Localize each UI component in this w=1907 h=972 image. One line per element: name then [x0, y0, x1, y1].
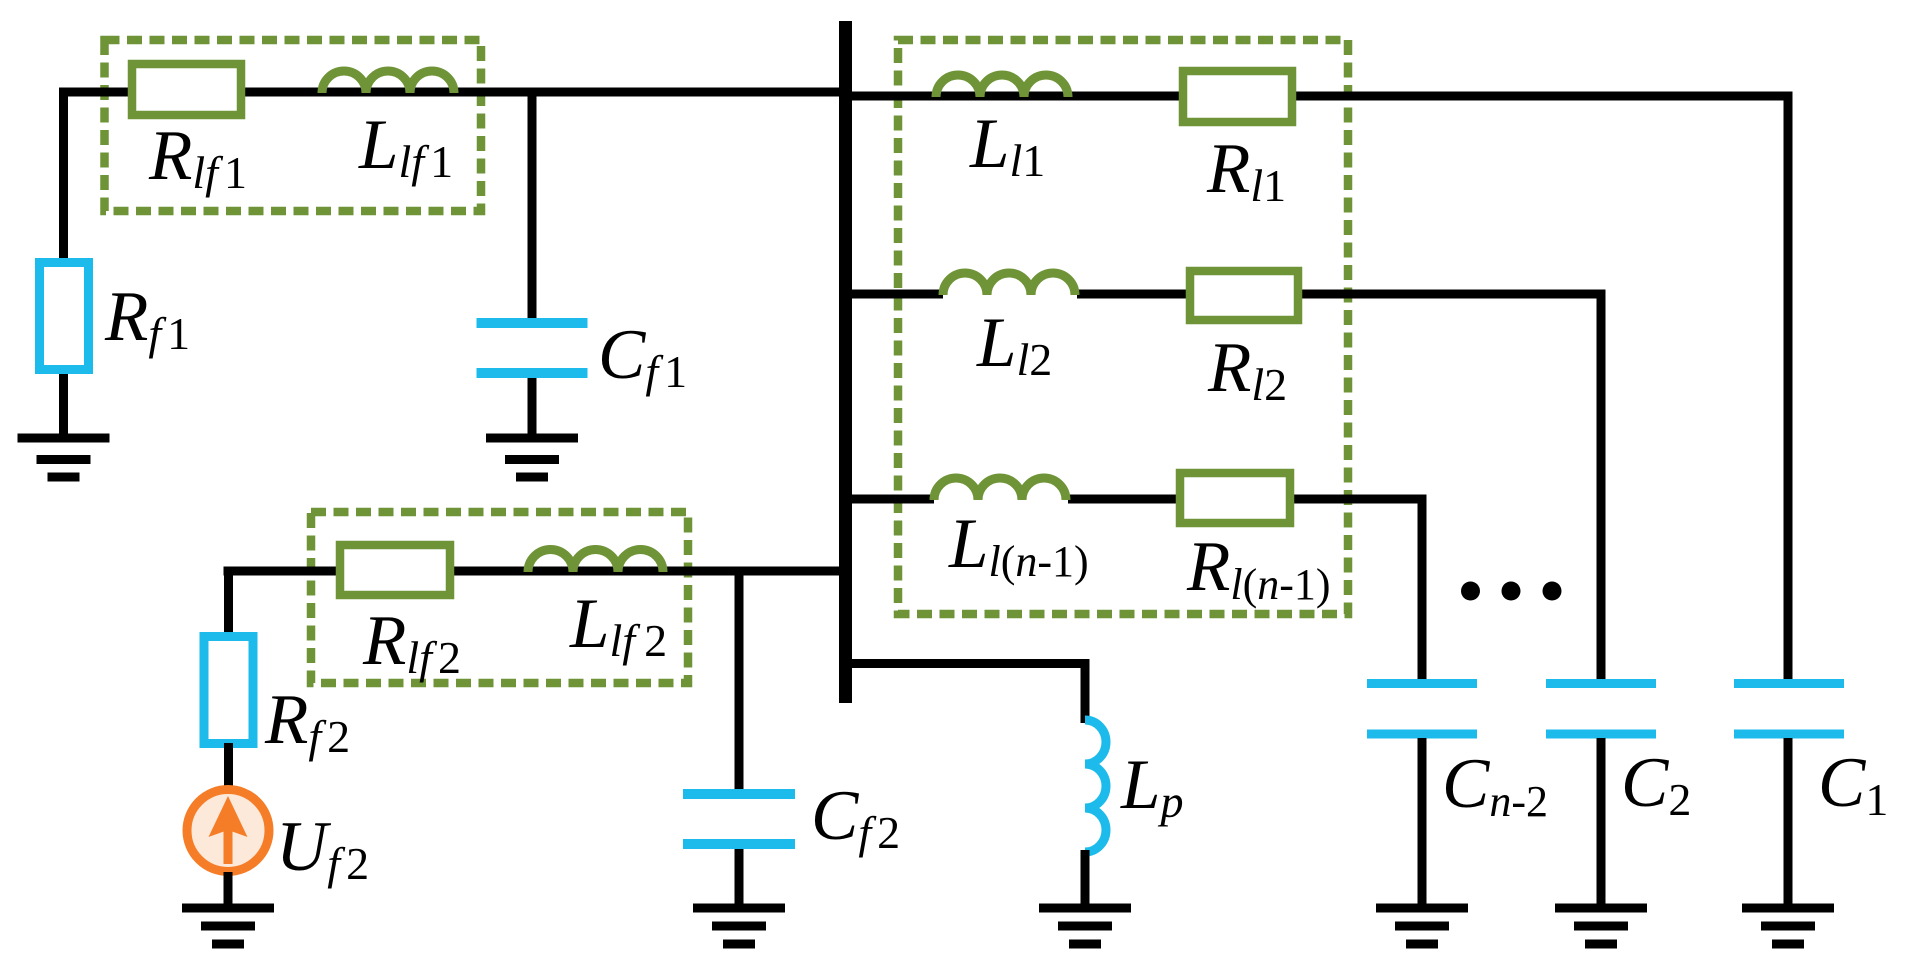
wire: Cf1 vertical from top wire to plate: [528, 88, 537, 322]
wire: Cf2 vertical from bottom wire to plate: [735, 571, 744, 790]
ground: under Rf1: [18, 438, 110, 477]
wire: left vertical from top wire to Rf1: [59, 88, 68, 262]
svg-text:C1: C1: [1818, 744, 1888, 825]
resistor Rlf2: [340, 545, 450, 595]
svg-text:Ll2: Ll2: [976, 304, 1052, 385]
current source Uf2: [187, 790, 269, 872]
resistor Rl(n-1): [1180, 473, 1290, 523]
svg-text:C2: C2: [1621, 744, 1691, 825]
arrow: Uf2 arrow: [209, 796, 248, 864]
wire: Rf1 to ground: [59, 369, 68, 438]
inductor Ll(n-1): [934, 478, 1066, 500]
resistor Rlf1: [132, 64, 241, 115]
svg-text:Rf1: Rf1: [104, 278, 190, 359]
ground: under Uf2: [182, 908, 274, 944]
capacitor C2: [1546, 684, 1656, 735]
wire: C2 bottom plate to ground: [1597, 738, 1606, 908]
bus bar: main vertical node: [839, 21, 852, 703]
dashed box: load branches group: [898, 40, 1348, 614]
capacitor Cf2: [683, 794, 795, 844]
svg-text:Lp: Lp: [1120, 746, 1184, 827]
svg-text:Rlf1: Rlf1: [148, 117, 247, 198]
resistor Rf1: [40, 263, 89, 370]
svg-text:Cf2: Cf2: [811, 777, 900, 858]
ground: under C2: [1555, 908, 1647, 944]
inductor Ll2: [943, 273, 1075, 295]
dashed box: filter 2 group: [311, 512, 688, 683]
wire: bus to Lp horizontal and down: [846, 664, 1085, 724]
svg-text:Rf2: Rf2: [264, 681, 350, 762]
wire: Cf1 bottom plate to ground: [528, 378, 537, 438]
capacitor Cf1: [477, 323, 588, 373]
svg-text:Rl(n-1): Rl(n-1): [1186, 528, 1331, 609]
wire: branch3 horizontal from bus: [846, 495, 934, 504]
svg-text:Cf1: Cf1: [598, 316, 687, 397]
wire: branch1 top horizontal left segment: [59, 88, 846, 97]
wire: branch1 right segment from bus to corner down to C1: [846, 96, 1788, 683]
inductor Ll1: [936, 75, 1068, 97]
inductor Lp: [1085, 720, 1106, 852]
svg-text:Ll1: Ll1: [969, 105, 1045, 186]
svg-text:Rl1: Rl1: [1206, 130, 1286, 211]
wire: Lp to ground: [1081, 850, 1090, 908]
dashed box: filter 1 group: [105, 40, 482, 211]
ground: under Lp: [1039, 908, 1131, 944]
capacitor C1: [1734, 684, 1844, 735]
inductor Llf1: [322, 71, 454, 93]
svg-text:Cn-2: Cn-2: [1442, 745, 1548, 826]
wire: left vertical from bottom wire to Rf2: [224, 567, 233, 636]
wire: Rf2 to Uf2: [224, 743, 233, 790]
wire: Uf2 to ground: [224, 872, 233, 908]
ground: under Cf2: [693, 908, 785, 944]
svg-text:Rl2: Rl2: [1207, 329, 1287, 410]
ground: under C1: [1742, 908, 1834, 944]
ground: under Cf1: [486, 438, 578, 477]
wire: Cn-2 bottom plate to ground: [1418, 738, 1427, 908]
capacitor Cn-2: [1367, 684, 1477, 735]
svg-text:Uf2: Uf2: [276, 808, 369, 889]
wire: bottom filter horizontal to bus: [224, 567, 847, 576]
wire: branch2 after coil to corner down to C2: [1077, 294, 1601, 683]
ground: under Cn-2: [1376, 908, 1468, 944]
svg-text:Llf2: Llf2: [569, 585, 667, 666]
resistor Rl2: [1190, 271, 1298, 320]
svg-text:Rlf2: Rlf2: [362, 602, 461, 683]
wire: branch2 horizontal from bus: [846, 290, 943, 299]
resistor Rl1: [1183, 71, 1292, 122]
svg-text:Ll(n-1): Ll(n-1): [948, 505, 1089, 586]
inductor Llf2: [528, 550, 663, 573]
wire: C1 bottom plate to ground: [1784, 738, 1793, 908]
dots: ellipsis for omitted branches: [1461, 582, 1562, 601]
svg-text:Llf1: Llf1: [358, 106, 453, 187]
resistor Rf2: [204, 637, 253, 744]
wire: branch3 after coil to corner down to Cn-2: [1068, 499, 1422, 683]
wire: Cf2 bottom plate to ground: [735, 849, 744, 908]
